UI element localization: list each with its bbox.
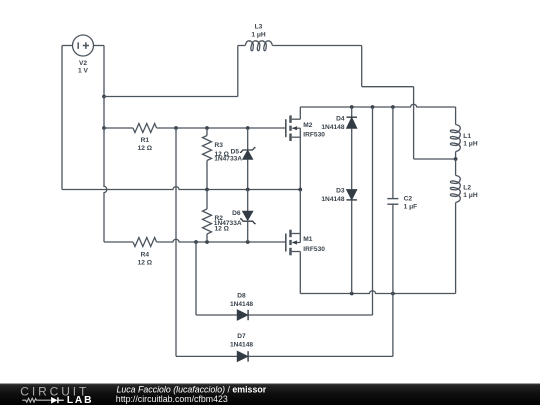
node junction D6 bottom bbox=[246, 240, 250, 244]
node junction V2+ branch bbox=[102, 95, 106, 99]
svg-text:1 μH: 1 μH bbox=[463, 140, 478, 147]
wire gate bus of M2 (R1 right to M2 gate) bbox=[157, 127, 286, 129]
wire D7 cathode up to bottom rail node bbox=[248, 294, 393, 357]
wire M1 bottom pin down to bottom rail bbox=[299, 252, 301, 294]
wire M1 top pin up to V2- node bbox=[299, 190, 301, 243]
node junction R3 bottom / R2 top bbox=[205, 188, 209, 192]
resistor R3 12ohm bbox=[203, 128, 230, 190]
wire V2 negative lead to net V2- (left rail down and across) bbox=[62, 46, 73, 190]
svg-text:http://circuitlab.com/cfbm423: http://circuitlab.com/cfbm423 bbox=[116, 394, 228, 404]
svg-text:D4: D4 bbox=[336, 116, 345, 123]
svg-text:R4: R4 bbox=[141, 251, 150, 258]
wire D7 feeder from M2 gate bus down bbox=[175, 128, 177, 356]
diode D3 1N4148 bbox=[321, 187, 357, 293]
svg-text:IRF530: IRF530 bbox=[303, 132, 325, 139]
wire V2 positive lead right and down bbox=[94, 46, 105, 97]
resistor R4 12ohm bbox=[133, 238, 157, 267]
wire top rail (M2 drain to L1, hop at x=413.6) bbox=[300, 104, 455, 107]
inductor L3 1uH bbox=[245, 24, 272, 51]
zener diode D5 1N4733A bbox=[214, 128, 255, 190]
svg-text:M1: M1 bbox=[303, 236, 312, 243]
svg-text:1 μH: 1 μH bbox=[463, 192, 478, 199]
logo diode bbox=[51, 397, 58, 404]
node junction R3 top bbox=[205, 126, 209, 130]
svg-text:1 V: 1 V bbox=[78, 67, 88, 74]
node junction D3 bottom bbox=[350, 292, 354, 296]
diode D7 1N4148 bbox=[230, 333, 253, 361]
svg-text:LAB: LAB bbox=[67, 395, 93, 405]
wire V2+ branch to L3 bbox=[104, 46, 245, 97]
node junction D5 bottom / D6 top bbox=[246, 188, 250, 192]
svg-text:1N4148: 1N4148 bbox=[230, 342, 253, 349]
svg-text:1 μF: 1 μF bbox=[404, 204, 418, 211]
svg-text:D8: D8 bbox=[237, 292, 246, 299]
svg-text:1 μH: 1 μH bbox=[251, 31, 266, 38]
capacitor C2 1uF bbox=[387, 107, 417, 294]
svg-text:R1: R1 bbox=[141, 137, 150, 144]
wire D7 anode lead bbox=[176, 355, 237, 357]
node junction D7 feeder on gate bus bbox=[174, 126, 178, 130]
n-channel MOSFET M1 IRF530 bbox=[286, 230, 325, 256]
node junction D5 top bbox=[246, 126, 250, 130]
wire V2+ continues down to R4 (hops right over V2- bus) bbox=[104, 128, 133, 242]
logo resistor squiggle bbox=[22, 398, 51, 402]
zener diode D6 1N4733A bbox=[214, 190, 256, 243]
wire D8 feeder from M1 gate bus down bbox=[195, 242, 197, 315]
svg-text:C2: C2 bbox=[404, 196, 413, 203]
svg-text:1N4148: 1N4148 bbox=[321, 196, 344, 203]
svg-text:1N4148: 1N4148 bbox=[230, 301, 253, 308]
wire net V2- horizontal bus (hop over crossing at x=176) bbox=[62, 187, 300, 190]
wire M2 source+body down to V2- node bbox=[299, 128, 301, 189]
svg-text:12 Ω: 12 Ω bbox=[138, 259, 153, 266]
svg-text:L2: L2 bbox=[463, 184, 471, 191]
svg-text:D3: D3 bbox=[336, 187, 345, 194]
wire V2+ down to gate bus of M2 (R1 left) bbox=[103, 97, 105, 129]
node junction D8 feeder on M1 gate bus bbox=[194, 240, 198, 244]
svg-text:1N4733A: 1N4733A bbox=[214, 220, 242, 227]
wire gate bus of M1 (R4 right to M1 gate, hop at x=176) bbox=[157, 239, 286, 242]
node junction L1 bottom / L2 top / L3 feed bbox=[454, 157, 458, 161]
node junction C2 top bbox=[391, 105, 395, 109]
wire D4 anode to D3 anode bbox=[351, 128, 353, 189]
node junction D4 top bbox=[350, 105, 354, 109]
svg-text:D6: D6 bbox=[232, 210, 241, 217]
node junction R2 bottom bbox=[205, 240, 209, 244]
resistor R1 12ohm bbox=[104, 124, 157, 153]
node junction M2 source / M1 drain / V2- bbox=[298, 188, 302, 192]
wire M2 drain to top rail bbox=[299, 107, 301, 119]
diode D8 1N4148 bbox=[230, 292, 253, 320]
svg-text:V2: V2 bbox=[79, 60, 87, 67]
svg-text:R3: R3 bbox=[215, 142, 224, 149]
wire D8 cathode up to top rail bbox=[248, 107, 372, 315]
resistor R2 12ohm bbox=[203, 190, 230, 243]
svg-text:IRF530: IRF530 bbox=[303, 246, 325, 253]
svg-text:D7: D7 bbox=[237, 333, 246, 340]
wire D8 anode lead bbox=[196, 314, 237, 316]
node junction R1 left / V2+ bbox=[102, 126, 106, 130]
node junction C2 bottom / D7 cathode bbox=[391, 292, 395, 296]
svg-text:L1: L1 bbox=[463, 133, 471, 140]
wire bottom rail (M1 source to L2 bottom, hop at x=372.5) bbox=[300, 291, 455, 294]
svg-text:12 Ω: 12 Ω bbox=[138, 145, 153, 152]
footer black bar bbox=[0, 384, 540, 405]
diode D4 1N4148 bbox=[321, 107, 357, 131]
inductor L2 1uH bbox=[450, 159, 477, 294]
svg-text:1N4733A: 1N4733A bbox=[214, 155, 242, 162]
wire L3 right lead to L1/L2 midpoint node bbox=[272, 46, 455, 160]
node junction D8 return on top rail bbox=[371, 105, 375, 109]
voltage source V2 bbox=[73, 35, 94, 74]
svg-text:1N4148: 1N4148 bbox=[321, 124, 344, 131]
svg-text:D5: D5 bbox=[231, 148, 240, 155]
svg-text:M2: M2 bbox=[303, 122, 312, 129]
svg-text:L3: L3 bbox=[255, 24, 263, 31]
inductor L1 1uH bbox=[450, 107, 477, 159]
n-channel MOSFET M2 IRF530 bbox=[286, 115, 325, 141]
